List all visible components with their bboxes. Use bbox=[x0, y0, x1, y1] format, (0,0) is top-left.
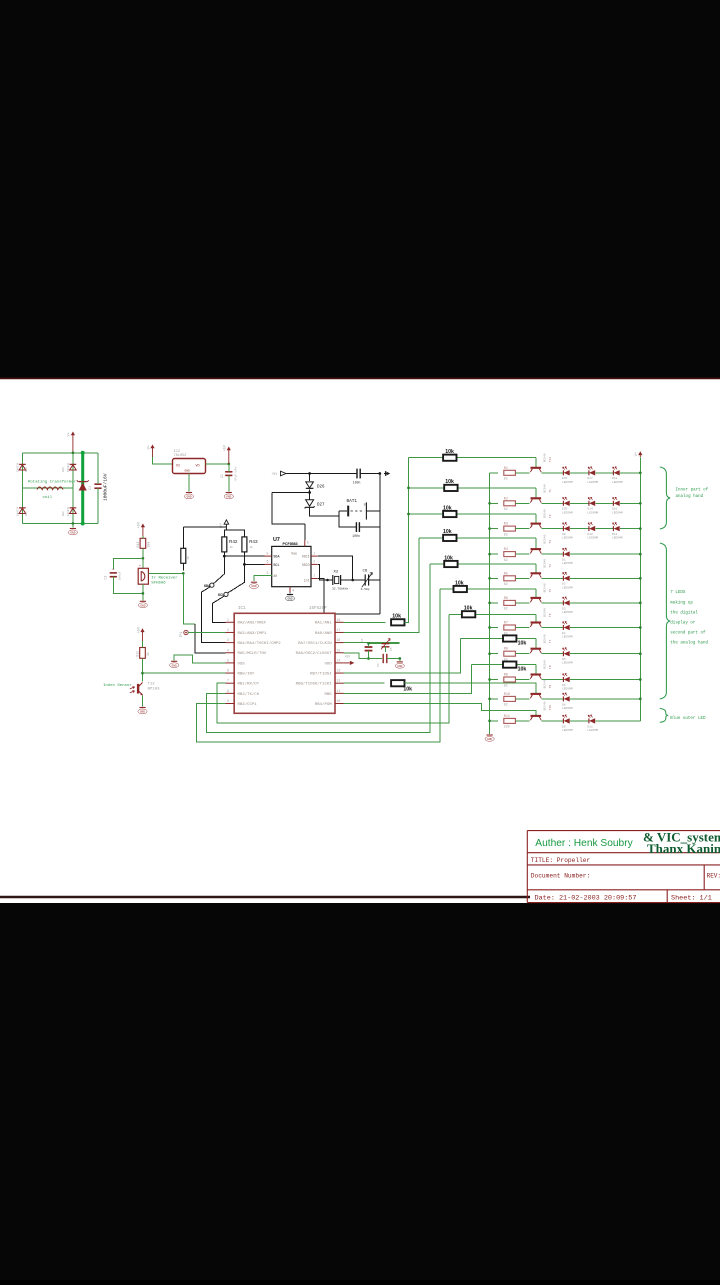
junction C7 top bbox=[367, 642, 370, 645]
svg-text:display or: display or bbox=[670, 621, 696, 626]
svg-text:LED5MM: LED5MM bbox=[562, 511, 573, 514]
svg-text:int: int bbox=[304, 578, 310, 582]
junction bridge top / C1 bbox=[81, 451, 85, 455]
svg-text:D9: D9 bbox=[562, 533, 566, 536]
junction +5V node bbox=[227, 463, 230, 466]
svg-text:RB2/TX/CK: RB2/TX/CK bbox=[238, 692, 260, 697]
LED D16 LED5MM bbox=[613, 497, 620, 506]
LED D35 LED5MM bbox=[563, 467, 570, 476]
svg-text:10k: 10k bbox=[518, 641, 527, 647]
svg-text:1k: 1k bbox=[186, 556, 190, 560]
junction V1/row3 bbox=[407, 513, 410, 516]
wire OSCI to crystal right bbox=[318, 556, 353, 580]
crystal X2 bbox=[328, 575, 353, 585]
svg-text:RB1/RX/DT: RB1/RX/DT bbox=[238, 682, 260, 687]
svg-text:BC640: BC640 bbox=[544, 559, 547, 568]
capacitor C1 1000uF/16V plates bbox=[94, 484, 101, 488]
wire bus to gnd bbox=[489, 721, 491, 734]
IC1 pin 2 stub bbox=[226, 631, 235, 633]
svg-text:D27: D27 bbox=[317, 504, 325, 508]
svg-text:BC640: BC640 bbox=[544, 583, 547, 592]
wire to LED D35 bbox=[541, 472, 563, 474]
wire 10k feed row T4 bbox=[430, 563, 536, 565]
svg-text:4: 4 bbox=[292, 589, 294, 593]
wire to gnd (cluster) bbox=[399, 659, 401, 661]
svg-text:GND: GND bbox=[251, 585, 256, 588]
resistor R6 82 bbox=[504, 600, 516, 605]
svg-text:GND: GND bbox=[140, 604, 145, 607]
svg-text:16F628P: 16F628P bbox=[309, 607, 327, 611]
wire left leg to U7 pin8 rail bbox=[272, 493, 305, 525]
svg-text:BAT1: BAT1 bbox=[347, 499, 358, 504]
IC1 pin 16 stub bbox=[335, 642, 344, 644]
svg-text:D2: D2 bbox=[562, 583, 566, 586]
junction battery top bbox=[378, 472, 381, 475]
svg-text:C6: C6 bbox=[363, 570, 368, 574]
wire bridge top rail bbox=[22, 452, 98, 454]
svg-text:+: + bbox=[112, 568, 114, 572]
svg-text:BC640: BC640 bbox=[544, 534, 547, 543]
svg-text:6-50p: 6-50p bbox=[361, 588, 370, 591]
ground (osc cluster) bbox=[395, 662, 404, 668]
svg-text:RB5: RB5 bbox=[324, 693, 332, 697]
wire R11 to T10 emitter bbox=[515, 720, 529, 722]
wire C1 bottom lead bbox=[97, 488, 99, 523]
junction bus/R2 bbox=[488, 502, 491, 505]
frame top border bbox=[0, 377, 720, 379]
wire 10k to T9 base (row10) bbox=[405, 683, 536, 694]
svg-text:+5V: +5V bbox=[137, 626, 141, 633]
svg-text:second part of: second part of bbox=[670, 631, 706, 636]
wire U7 int down to osc drop rail bbox=[318, 579, 380, 614]
svg-text:D30: D30 bbox=[562, 508, 568, 511]
svg-text:LED5MM: LED5MM bbox=[562, 481, 573, 484]
wire C to battery node bbox=[360, 473, 379, 475]
diode D19 1N4934 bbox=[70, 464, 77, 470]
resistor R1 82 bbox=[504, 470, 516, 475]
svg-text:R12: R12 bbox=[135, 651, 139, 657]
svg-text:OSCO: OSCO bbox=[302, 563, 310, 567]
wire IC1 pin12 to 10k bbox=[344, 682, 385, 684]
wire SCL to U7 bbox=[244, 563, 264, 565]
wire IC1 pin8 wrap to row5 feed bbox=[207, 564, 430, 733]
svg-text:coil: coil bbox=[43, 495, 53, 500]
svg-text:D17: D17 bbox=[587, 477, 593, 480]
ground (T12) bbox=[138, 708, 147, 714]
IC1 pin 9 stub bbox=[226, 703, 235, 705]
svg-text:10k: 10k bbox=[455, 580, 464, 586]
wire 10k feed row T11 bbox=[409, 457, 536, 459]
svg-text:RB6/T1OSO/T1CKI: RB6/T1OSO/T1CKI bbox=[296, 682, 332, 687]
wire battery right lead bbox=[366, 510, 379, 512]
IR receiver SFH506 bbox=[138, 564, 148, 584]
svg-text:100n: 100n bbox=[353, 480, 361, 484]
svg-text:+5V: +5V bbox=[344, 655, 350, 659]
resistor R3 82 bbox=[504, 526, 516, 531]
ground (bridge) bbox=[68, 529, 77, 535]
svg-text:T9: T9 bbox=[549, 685, 552, 689]
svg-text:+5V: +5V bbox=[138, 521, 142, 528]
wire bottom 100n to right leg bbox=[360, 526, 380, 528]
wire +5V to C2 bbox=[228, 464, 230, 472]
resistor 10k (T6) bbox=[462, 611, 475, 617]
svg-text:GND: GND bbox=[397, 665, 402, 668]
svg-text:T5: T5 bbox=[549, 589, 552, 593]
svg-text:T10: T10 bbox=[549, 705, 552, 711]
wire D26 to node bbox=[309, 489, 311, 492]
svg-text:C4: C4 bbox=[377, 663, 380, 667]
junction C4/gnd bbox=[398, 657, 401, 660]
junction D26/D27 bbox=[308, 491, 311, 494]
resistor 10k (T11) bbox=[443, 455, 456, 461]
svg-text:5: 5 bbox=[227, 658, 229, 662]
U7 pin 6 stub bbox=[265, 563, 272, 565]
svg-text:17: 17 bbox=[337, 628, 341, 632]
wire SDA node to IC1 pin3 bbox=[202, 587, 226, 643]
IC1 pin 1 stub bbox=[226, 621, 235, 623]
junction V+ bus row T9 bbox=[639, 698, 642, 701]
svg-text:1000uF/16V: 1000uF/16V bbox=[103, 473, 109, 501]
LED D4 LED5MM bbox=[563, 621, 570, 630]
resistor 10k (T5) bbox=[454, 586, 467, 592]
svg-text:T1: T1 bbox=[549, 489, 552, 493]
junction V+ bus row T11 bbox=[639, 471, 642, 474]
transistor T2 BC640 bbox=[530, 524, 541, 528]
junction bus/R7 bbox=[488, 626, 491, 629]
svg-text:100n: 100n bbox=[352, 534, 360, 538]
power +5V (R12) bbox=[137, 626, 144, 642]
ground (regulator) bbox=[184, 493, 193, 499]
frame bottom border bbox=[0, 896, 530, 898]
svg-text:7: 7 bbox=[313, 574, 315, 578]
svg-text:LED5MM: LED5MM bbox=[562, 662, 573, 665]
wire row T8 to V+ bus bbox=[570, 679, 640, 681]
junction V+ bus row T3 bbox=[639, 553, 642, 556]
svg-text:GND: GND bbox=[140, 711, 145, 714]
svg-text:10k: 10k bbox=[403, 686, 412, 692]
junction IR output bbox=[182, 572, 185, 575]
junction R12/T12/RB0 bbox=[141, 672, 144, 675]
svg-text:82: 82 bbox=[504, 703, 508, 707]
junction V+ bus row T7 bbox=[639, 652, 642, 655]
svg-text:6: 6 bbox=[227, 669, 229, 673]
svg-text:LED5MM: LED5MM bbox=[562, 537, 573, 540]
resistor R4 82 bbox=[504, 552, 516, 557]
title block frame bbox=[527, 831, 720, 903]
wire to LED D6 bbox=[541, 679, 563, 681]
svg-text:LED5MM: LED5MM bbox=[562, 729, 573, 732]
brace: 7 LEDS digital display bbox=[660, 543, 670, 699]
svg-text:RA6/OSC2/CLKOUT: RA6/OSC2/CLKOUT bbox=[296, 651, 333, 656]
svg-text:BC640: BC640 bbox=[544, 634, 547, 643]
ground (IR receiver) bbox=[138, 601, 147, 607]
svg-text:T6: T6 bbox=[549, 613, 552, 617]
wire to LED D17 bbox=[570, 472, 589, 474]
svg-text:RB4/PGM: RB4/PGM bbox=[315, 702, 332, 707]
wire IC1 pin13 to row8 feed bbox=[344, 639, 461, 674]
svg-text:82: 82 bbox=[504, 558, 508, 562]
U7 pin 4 stub bbox=[289, 587, 291, 593]
svg-text:9: 9 bbox=[227, 699, 229, 703]
svg-text:5: 5 bbox=[267, 551, 269, 555]
LED D9 LED5MM bbox=[563, 715, 570, 724]
wire R3 to T2 emitter bbox=[515, 528, 529, 530]
wire bus to R10 bbox=[490, 698, 498, 700]
junction bridge gnd bbox=[72, 522, 75, 525]
svg-text:4: 4 bbox=[227, 648, 229, 652]
resistor 10k (pin12/row10) bbox=[391, 680, 404, 686]
svg-text:OSCI: OSCI bbox=[302, 554, 310, 558]
svg-text:BC640: BC640 bbox=[544, 453, 547, 462]
U7 pin 3 stub bbox=[265, 575, 272, 577]
svg-text:A0: A0 bbox=[273, 574, 277, 578]
resistor R13 bbox=[140, 538, 146, 548]
LED D11 LED5MM bbox=[588, 715, 595, 724]
IC1 pin 7 stub bbox=[226, 682, 235, 684]
svg-text:VDD: VDD bbox=[324, 662, 332, 666]
svg-text:10k: 10k bbox=[443, 529, 452, 535]
svg-text:BC640: BC640 bbox=[544, 608, 547, 617]
svg-text:LED5MM: LED5MM bbox=[587, 511, 598, 514]
junction C7 bottom bbox=[367, 657, 370, 660]
svg-text:D8: D8 bbox=[562, 703, 566, 706]
svg-text:13: 13 bbox=[337, 669, 341, 673]
svg-text:BC640: BC640 bbox=[544, 660, 547, 669]
wire row T10 to V+ bus bbox=[596, 720, 641, 722]
wire IC1 pin9 wrap to row6 feed bbox=[196, 589, 440, 742]
svg-text:D1: D1 bbox=[562, 559, 566, 562]
svg-text:BC640: BC640 bbox=[544, 679, 547, 688]
wire 10k feed row T5 bbox=[440, 588, 536, 590]
wire row T7 to V+ bus bbox=[570, 653, 640, 655]
LED D8 LED5MM bbox=[563, 693, 570, 702]
svg-text:D22: D22 bbox=[62, 511, 65, 516]
wire to D26 bbox=[309, 474, 311, 482]
transistor T11 BC640 bbox=[530, 468, 541, 472]
LED D9 LED5MM bbox=[563, 523, 570, 532]
svg-text:LED5MM: LED5MM bbox=[562, 688, 573, 691]
wire +5V rail to IR pullup bbox=[183, 526, 226, 528]
wire C1 top lead bbox=[97, 453, 99, 484]
svg-text:D21: D21 bbox=[25, 511, 28, 516]
resistor 10k (pin18) bbox=[391, 619, 404, 625]
wire IR pullup bottom bbox=[182, 563, 184, 570]
wire to LED D14 bbox=[570, 502, 589, 504]
wire crystal node to C6 bbox=[353, 579, 366, 581]
transistor T9 BC640 bbox=[530, 694, 541, 698]
wire A0 to gnd bbox=[254, 576, 265, 582]
IC1 pin 17 stub bbox=[335, 631, 344, 633]
capacitor C2 bbox=[225, 472, 232, 476]
svg-text:82: 82 bbox=[504, 532, 508, 536]
wire 10k feed row T8 bbox=[471, 664, 535, 666]
svg-text:Auther : Henk Soubry: Auther : Henk Soubry bbox=[535, 838, 633, 849]
wire SDA to U7 bbox=[224, 555, 264, 557]
svg-text:R13: R13 bbox=[136, 542, 140, 548]
svg-text:D6: D6 bbox=[562, 684, 566, 687]
resistor R43 bbox=[242, 537, 247, 552]
svg-text:100: 100 bbox=[147, 542, 151, 548]
svg-text:82: 82 bbox=[504, 477, 508, 481]
pullup resistor (IR output) bbox=[181, 548, 186, 563]
svg-text:10k: 10k bbox=[443, 505, 452, 511]
svg-text:Thanx Kaninja: Thanx Kaninja bbox=[647, 841, 720, 856]
wire bridge to gnd bbox=[72, 524, 74, 528]
wire bus to R1 bbox=[490, 472, 498, 474]
wire V1 riser rows1-3 bbox=[405, 458, 409, 623]
svg-text:R2: R2 bbox=[504, 497, 508, 501]
wire IR receiver to gnd bbox=[142, 584, 144, 600]
wire T12 emitter to gnd bbox=[142, 695, 144, 706]
transistor T8 BC640 bbox=[530, 675, 541, 679]
svg-text:LED5MM: LED5MM bbox=[562, 562, 573, 565]
svg-text:16: 16 bbox=[337, 638, 341, 642]
svg-text:TITLE: Propeller: TITLE: Propeller bbox=[531, 857, 591, 864]
junction crystal left bbox=[326, 579, 329, 582]
inductor rotating transformer coil bbox=[37, 487, 63, 490]
wire 10k feed row T1 bbox=[409, 487, 536, 489]
svg-text:R3: R3 bbox=[504, 523, 508, 527]
svg-text:1: 1 bbox=[313, 551, 315, 555]
svg-text:VO: VO bbox=[196, 465, 200, 469]
svg-text:LED5MM: LED5MM bbox=[562, 586, 573, 589]
wire SCL node to IC1 pin1 bbox=[213, 596, 226, 622]
wire bus to R8 bbox=[490, 653, 498, 655]
svg-text:VI: VI bbox=[176, 465, 180, 469]
brace: blue outer LED bbox=[660, 708, 668, 722]
LED D5 LED5MM bbox=[563, 648, 570, 657]
svg-text:BC640: BC640 bbox=[544, 484, 547, 493]
wire U7 pin4 to gnd bbox=[289, 592, 291, 593]
svg-text:R8: R8 bbox=[504, 648, 508, 652]
wire U7 pin8 up to battery rail bbox=[304, 524, 306, 540]
svg-text:32.768kHz: 32.768kHz bbox=[332, 587, 348, 591]
wire row T5 to V+ bus bbox=[570, 602, 640, 604]
wire IC1 VSS to gnd bbox=[174, 655, 225, 663]
wire R42 bottom bbox=[223, 552, 225, 556]
svg-text:C2: C2 bbox=[220, 474, 224, 478]
junction SCL net bbox=[243, 563, 246, 566]
IC1 pin 4 stub bbox=[226, 652, 235, 654]
microcontroller IC1 16F628P box bbox=[234, 613, 335, 713]
svg-text:T11: T11 bbox=[549, 457, 552, 463]
junction V+ bus row T8 bbox=[639, 678, 642, 681]
LED D2 LED5MM bbox=[563, 572, 570, 581]
wire bus to R3 bbox=[490, 528, 498, 530]
svg-text:Blue outer LED: Blue outer LED bbox=[670, 716, 706, 721]
svg-text:12: 12 bbox=[337, 679, 341, 683]
svg-text:R42: R42 bbox=[229, 539, 238, 544]
ground (C2) bbox=[224, 493, 233, 499]
svg-text:RA5/MCLR/THV: RA5/MCLR/THV bbox=[238, 651, 267, 656]
svg-text:2: 2 bbox=[313, 560, 315, 564]
wire C3 bottom loop bbox=[113, 577, 143, 594]
U7 pin 2 stub bbox=[311, 563, 318, 565]
op-amp/RTC U7 PCF8583 box bbox=[272, 546, 311, 586]
svg-text:10k: 10k bbox=[445, 449, 454, 455]
svg-text:RA2/AN2/VREF: RA2/AN2/VREF bbox=[238, 621, 267, 626]
power V+ (LED bus) bbox=[635, 451, 642, 457]
svg-text:GND: GND bbox=[70, 532, 75, 535]
svg-text:V+: V+ bbox=[68, 432, 72, 436]
svg-text:R43: R43 bbox=[249, 539, 258, 544]
junction R13/C3 top bbox=[142, 557, 145, 560]
wire IC1 pin18 to 10k bbox=[344, 621, 386, 623]
junction bus/R3 bbox=[488, 527, 491, 530]
svg-text:RA4/RA4/T0CKI/CMP2: RA4/RA4/T0CKI/CMP2 bbox=[238, 641, 282, 646]
wire to LED D1 bbox=[541, 553, 563, 555]
resistor 10k (T4) bbox=[444, 561, 457, 567]
svg-text:78L05Z: 78L05Z bbox=[174, 454, 188, 458]
resistor R12 bbox=[140, 648, 146, 659]
wire base drop T4 bbox=[535, 564, 537, 573]
IC1 pin 8 stub bbox=[226, 692, 235, 694]
diode D21 1N4934 bbox=[19, 508, 26, 514]
wire C6 to vertical bbox=[369, 579, 380, 581]
wire 10k feed row T2 bbox=[409, 513, 536, 515]
transistor T7 BC640 bbox=[530, 649, 541, 653]
wire C4 to gnd node bbox=[387, 658, 400, 660]
svg-text:3: 3 bbox=[267, 571, 269, 575]
IC1 pin 5 stub bbox=[226, 662, 235, 664]
IC1 pin 15 stub bbox=[335, 652, 344, 654]
svg-text:GND: GND bbox=[185, 470, 191, 473]
svg-text:100uF: 100uF bbox=[118, 571, 121, 580]
junction V+ bus row T4 bbox=[639, 577, 642, 580]
diode D22 1N4934 bbox=[70, 508, 77, 514]
svg-text:LED5MM: LED5MM bbox=[612, 481, 623, 484]
wire bus to R4 bbox=[490, 553, 498, 555]
wire base drop T8 bbox=[535, 665, 537, 675]
LED D30 LED5MM bbox=[563, 497, 570, 506]
U7 pin 5 stub bbox=[265, 555, 272, 557]
wire to LED D18 bbox=[596, 472, 614, 474]
wire SDA drop to node bbox=[213, 556, 224, 584]
ground (IC1 VSS) bbox=[170, 661, 179, 667]
svg-text:T3: T3 bbox=[549, 540, 552, 544]
svg-text:1N4934: 1N4934 bbox=[17, 462, 20, 472]
wire base drop T1 bbox=[535, 488, 537, 498]
wire to C3 top bbox=[113, 558, 143, 569]
svg-text:C1: C1 bbox=[89, 486, 93, 490]
svg-text:8: 8 bbox=[227, 689, 229, 693]
svg-text:R9: R9 bbox=[504, 674, 508, 678]
svg-text:GND: GND bbox=[172, 664, 177, 667]
LED D13 LED5MM bbox=[613, 523, 620, 532]
svg-text:220: 220 bbox=[504, 725, 510, 729]
svg-text:D26: D26 bbox=[317, 485, 325, 489]
svg-text:SFH506: SFH506 bbox=[151, 582, 166, 586]
junction bus/R4 bbox=[488, 553, 491, 556]
svg-text:D18: D18 bbox=[612, 477, 618, 480]
svg-text:Index Sensor: Index Sensor bbox=[103, 683, 132, 688]
wire bus to R5 bbox=[490, 577, 498, 579]
svg-text:R5: R5 bbox=[504, 572, 508, 576]
wire R4 to T3 emitter bbox=[515, 553, 529, 555]
wire R12 to T12 collector bbox=[142, 658, 144, 681]
svg-text:82: 82 bbox=[504, 507, 508, 511]
wire to IC1 pin6 RB0 bbox=[143, 672, 226, 674]
wire OSCO to crystal left bbox=[318, 564, 328, 580]
svg-text:LED5MM: LED5MM bbox=[612, 511, 623, 514]
svg-text:R4: R4 bbox=[504, 548, 508, 552]
svg-text:2k: 2k bbox=[230, 545, 234, 549]
svg-text:analog hand: analog hand bbox=[676, 494, 704, 499]
resistor 10k (T3) bbox=[443, 535, 456, 541]
capacitor C1 polarity diode-like mark bbox=[77, 480, 88, 491]
transistor T3 BC640 bbox=[530, 549, 541, 553]
wire to bottom 100n bbox=[339, 516, 356, 527]
